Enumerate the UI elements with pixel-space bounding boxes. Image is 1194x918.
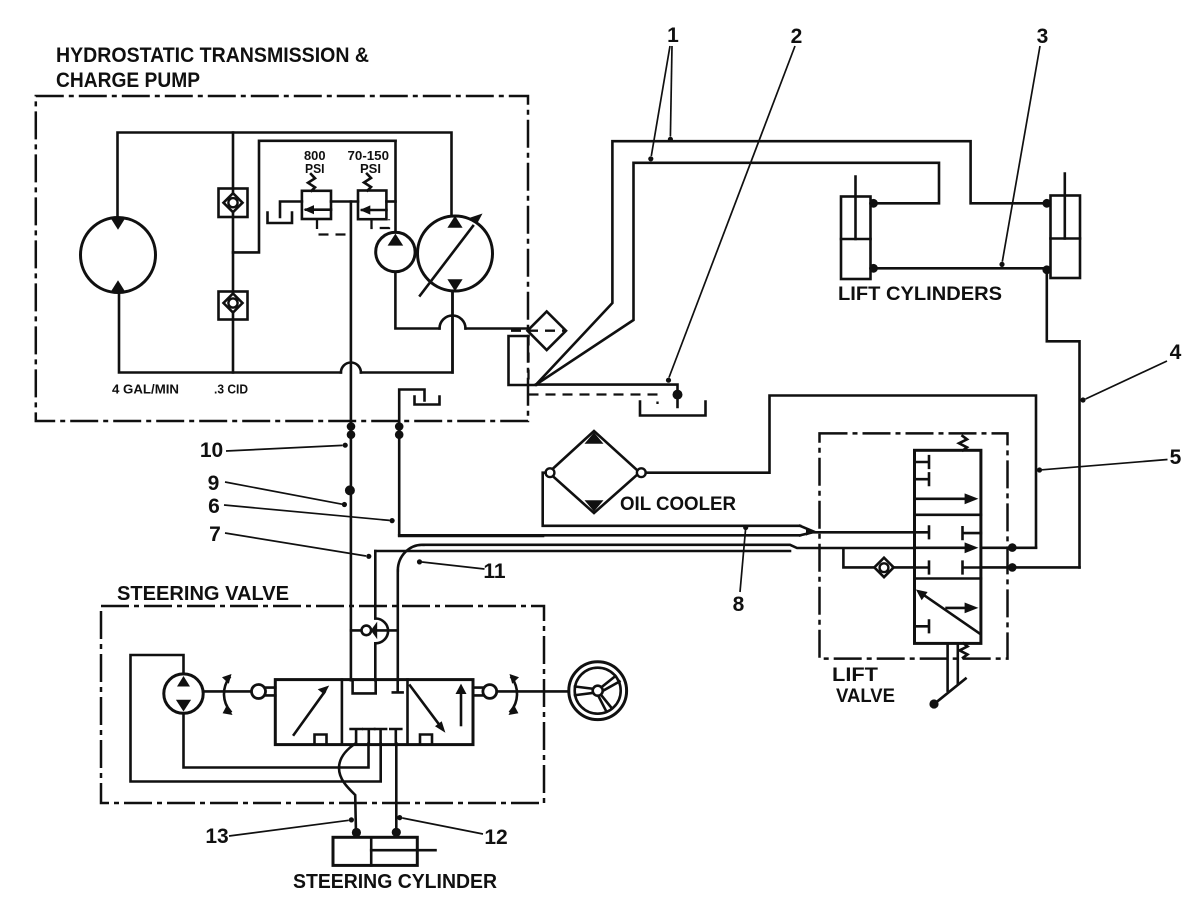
rotate arrow left [222, 674, 233, 715]
callout 4 [1080, 341, 1181, 403]
wire: lift valve output right to top loop [981, 546, 1036, 549]
svg-text:.3 CID: .3 CID [214, 383, 248, 397]
relief valve RV1 800 PSI [302, 174, 331, 219]
callout 13 [205, 817, 354, 848]
svg-text:12: 12 [484, 826, 507, 849]
pilot line dashed RV1 [317, 219, 347, 235]
variable displacement pump [418, 214, 493, 296]
wire: motor bottom return line with hop over supply line [119, 293, 341, 373]
lift cylinder left [841, 177, 878, 280]
wire: pump top outer loop to valve port 3 [131, 655, 381, 782]
svg-text:6: 6 [208, 495, 220, 518]
callout 12 [397, 815, 508, 849]
svg-text:LIFT CYLINDERS: LIFT CYLINDERS [838, 283, 1002, 305]
svg-text:CHARGE PUMP: CHARGE PUMP [56, 68, 200, 92]
callout 6 [208, 495, 395, 523]
check valve CV1 [219, 189, 248, 218]
wire: charge pump top column [394, 141, 397, 233]
svg-text:2: 2 [791, 25, 803, 48]
actuator ball left [252, 685, 276, 699]
svg-text:PSI: PSI [360, 161, 381, 176]
relief valve RV2 70-150 PSI [358, 174, 386, 219]
wire: case line from transmission to hose lower line [399, 421, 543, 536]
callout 3 [999, 25, 1048, 267]
wire: branch from check column to inner top line [233, 141, 396, 253]
svg-text:PSI: PSI [305, 161, 325, 176]
svg-text:STEERING CYLINDER: STEERING CYLINDER [293, 871, 498, 893]
wire: fan line B to left cylinder top port [536, 163, 939, 385]
wire: pump bottom loop to valve port 2 [184, 713, 369, 767]
svg-text:3: 3 [1037, 25, 1049, 48]
wire: valve to steering wheel [497, 690, 569, 693]
steering valve enclosure box [101, 606, 544, 803]
callout 1 [648, 24, 679, 161]
svg-text:OIL COOLER: OIL COOLER [620, 493, 736, 515]
steering cylinder [333, 828, 436, 866]
callout 11 [417, 559, 506, 583]
svg-text:11: 11 [483, 560, 506, 583]
wire: check valve column line [232, 133, 235, 373]
title text HYDROSTATIC TRANSMISSION & CHARGE PUMP [56, 43, 369, 92]
callout 2 [666, 25, 802, 383]
lift valve body [915, 450, 981, 643]
hose item 8 (tapered) [399, 526, 914, 536]
steering valve internal check: ball and seat on cross line [351, 619, 398, 681]
svg-text:7: 7 [209, 523, 221, 546]
wire: line between relief valves [331, 200, 358, 203]
rotate arrow right [509, 674, 520, 715]
wire: pump to valve actuator link [203, 690, 251, 693]
outlet diamond (quick disconnect) [511, 312, 566, 351]
lift valve enclosure box [820, 433, 1008, 658]
svg-text:9: 9 [208, 472, 220, 495]
wire: fan line A to right cylinder top port [536, 141, 1047, 384]
lift valve box2 ports and arrow [915, 527, 981, 574]
dashed drain to tank [529, 395, 658, 405]
lift valve manual lever [929, 643, 965, 708]
wire: main supply line from relief junction down to steering valve [350, 202, 353, 681]
junction dot item 9 [345, 485, 355, 495]
wire: RV2 output to charge pump column [386, 200, 395, 203]
svg-text:HYDROSTATIC TRANSMISSION &: HYDROSTATIC TRANSMISSION & [56, 43, 369, 67]
lift valve bottom spring [960, 643, 968, 657]
junction dot on tank line [673, 390, 683, 400]
lift valve box1 ports [915, 456, 979, 504]
steering pump (gerotor) [164, 674, 203, 713]
svg-text:STEERING VALVE: STEERING VALVE [117, 583, 289, 605]
svg-text:10: 10 [200, 439, 223, 462]
tank symbol right of transmission [640, 402, 706, 416]
lift cylinder right [1042, 174, 1080, 279]
wire: oil cooler left port down to hose upper line [543, 473, 800, 526]
wire: pump bottom line [451, 291, 454, 373]
wire: steering valve port1 S-curve down to cylinder left port [339, 743, 356, 829]
check valve at lift valve inlet [843, 549, 914, 578]
wire: steering valve port4 down to cylinder right port [395, 743, 398, 829]
pilot line dashed RV2 [372, 219, 390, 228]
wire: RV1 drain to tank [280, 202, 302, 218]
steering valve right section arrows [410, 684, 467, 744]
svg-text:8: 8 [733, 593, 745, 616]
callout 5 [1037, 446, 1182, 473]
svg-text:5: 5 [1170, 446, 1182, 469]
case drain tank inside transmission [399, 390, 439, 422]
actuator ball right [473, 685, 497, 699]
lift valve top spring [959, 436, 967, 450]
enclosure box: hydrostatic transmission (dash-dot border) [36, 96, 528, 421]
charge pump [376, 232, 415, 271]
wire: lift valve lower right port to line 4 [981, 566, 1080, 569]
check valve CV2 [219, 292, 248, 320]
wire: line 11 from curve corner to lift valve [424, 545, 915, 548]
tank symbol at RV1 [268, 213, 293, 224]
svg-text:13: 13 [205, 825, 228, 848]
hydraulic motor [81, 218, 156, 293]
wire: line 4 from right cylinder to lift valve [1047, 270, 1080, 568]
steering wheel [569, 662, 627, 720]
wire: charge pump bottom to diamond outlet with hop over pump line [395, 272, 439, 329]
callout 9 [208, 472, 347, 507]
wire: oil cooler right port to top loop [646, 396, 1036, 548]
svg-text:4 GAL/MIN: 4 GAL/MIN [112, 383, 179, 397]
callout 10 [200, 439, 348, 462]
wire: line between cylinder bottom ports [874, 267, 1047, 270]
svg-text:1: 1 [667, 24, 679, 47]
junction dots at transmission box exit [347, 422, 356, 431]
wire: line 7 horizontal to lift valve [375, 550, 790, 553]
svg-text:4: 4 [1170, 341, 1182, 364]
wire: fan line C to tank [536, 385, 678, 407]
steering valve body [275, 680, 473, 745]
wire: top circuit line motor-to-pump [118, 133, 452, 218]
steering valve left section arrow [294, 686, 329, 744]
svg-text:LIFT: LIFT [832, 664, 878, 686]
oil cooler [546, 431, 646, 513]
steering valve center section ports [351, 680, 403, 744]
lift valve box3 arrows [915, 590, 980, 634]
svg-text:VALVE: VALVE [836, 685, 895, 707]
label LIFT VALVE [832, 664, 895, 707]
callout 8 [733, 525, 749, 616]
connector block under diamond [509, 336, 537, 386]
callout 7 [209, 523, 371, 559]
